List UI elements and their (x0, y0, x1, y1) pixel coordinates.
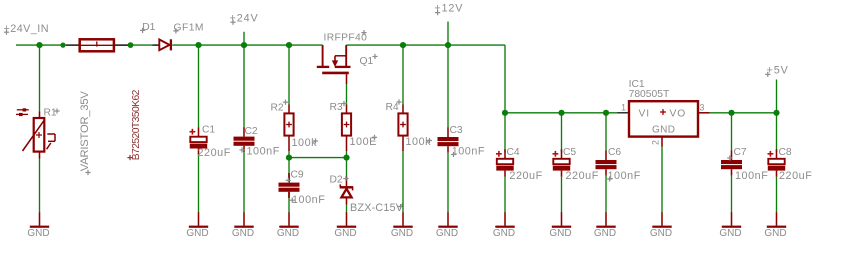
svg-text:GND: GND (493, 228, 515, 239)
svg-text:C8: C8 (779, 147, 792, 158)
svg-text:C6: C6 (608, 147, 621, 158)
svg-text:C3: C3 (450, 125, 463, 136)
svg-text:GF1M: GF1M (174, 23, 204, 34)
svg-text:VARISTOR_35V: VARISTOR_35V (79, 91, 91, 172)
svg-text:C4: C4 (507, 147, 520, 158)
svg-text:100k: 100k (406, 136, 432, 148)
svg-text:C7: C7 (734, 147, 747, 158)
svg-text:2: 2 (651, 140, 661, 145)
svg-text:GND: GND (391, 228, 413, 239)
svg-text:220uF: 220uF (566, 170, 599, 182)
svg-text:IRFPF40: IRFPF40 (324, 33, 368, 44)
svg-text:1: 1 (621, 103, 626, 113)
svg-text:220uF: 220uF (779, 170, 812, 182)
svg-text:100nF: 100nF (292, 194, 325, 206)
svg-text:R2: R2 (271, 103, 284, 114)
svg-text:GND: GND (652, 125, 675, 136)
svg-text:100nF: 100nF (247, 146, 280, 158)
svg-text:C2: C2 (245, 126, 258, 137)
svg-text:GND: GND (186, 228, 208, 239)
svg-text:GND: GND (764, 228, 786, 239)
svg-text:C9: C9 (291, 170, 304, 181)
svg-text:VI: VI (639, 109, 651, 120)
svg-text:GND: GND (549, 228, 571, 239)
svg-text:GND: GND (650, 228, 672, 239)
svg-text:R3: R3 (330, 102, 343, 113)
svg-text:100k: 100k (292, 137, 318, 149)
svg-text:B72520T350K62: B72520T350K62 (131, 89, 142, 160)
svg-text:D1: D1 (142, 22, 155, 33)
svg-text:C1: C1 (202, 125, 215, 136)
svg-text:IC1: IC1 (629, 79, 645, 90)
svg-text:BZX-C15V: BZX-C15V (350, 202, 404, 214)
svg-text:VO: VO (670, 109, 687, 120)
svg-text:3: 3 (700, 103, 705, 113)
svg-text:+24V_IN: +24V_IN (4, 23, 49, 35)
svg-text:GND: GND (436, 228, 458, 239)
svg-text:100nF: 100nF (452, 146, 485, 158)
svg-text:GND: GND (334, 228, 356, 239)
svg-text:GND: GND (594, 228, 616, 239)
svg-text:220uF: 220uF (198, 147, 231, 159)
svg-text:100nF: 100nF (735, 170, 768, 182)
svg-text:GND: GND (277, 228, 299, 239)
svg-text:100nF: 100nF (608, 170, 641, 182)
svg-text:Q1: Q1 (360, 56, 374, 67)
svg-text:R1: R1 (44, 107, 57, 118)
svg-text:780505T: 780505T (629, 89, 670, 100)
svg-text:GND: GND (232, 228, 254, 239)
svg-text:GND: GND (27, 228, 49, 239)
svg-text:C5: C5 (563, 147, 576, 158)
svg-text:GND: GND (719, 228, 741, 239)
svg-text:R4: R4 (386, 102, 399, 113)
svg-text:220uF: 220uF (509, 170, 542, 182)
svg-text:D2: D2 (330, 175, 343, 186)
